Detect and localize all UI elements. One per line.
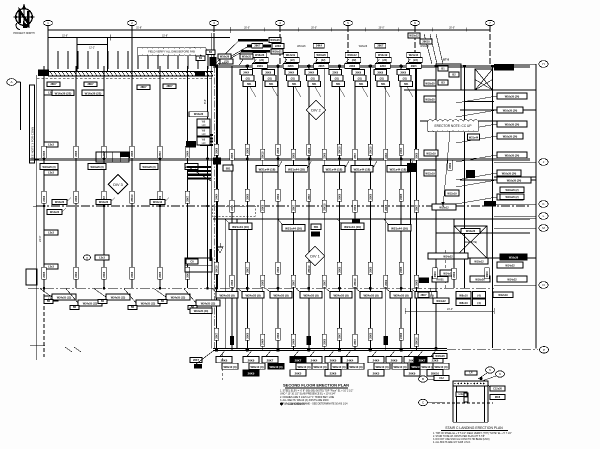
svg-text:W21x44 (16): W21x44 (16)	[232, 225, 249, 229]
svg-text:20'-0": 20'-0"	[379, 28, 385, 30]
lw top capsule 84	[84, 82, 97, 87]
right stub line y90	[404, 89, 536, 91]
svg-text:28K10: 28K10	[323, 203, 326, 211]
grid line 5 drop	[347, 26, 349, 65]
svg-text:W24x55 (12): W24x55 (12)	[111, 297, 126, 300]
lw joist tag a x187.5	[185, 146, 189, 158]
svg-text:W16x26 (3): W16x26 (3)	[42, 166, 55, 169]
svg-text:W16x31: W16x31	[242, 56, 252, 59]
svg-text:22K6: 22K6	[277, 332, 280, 339]
right area label 470-258	[470, 258, 488, 264]
junction box 2	[197, 128, 210, 136]
svg-text:W21x44 (18): W21x44 (18)	[390, 168, 407, 172]
vj tag r4 x262.6	[261, 334, 265, 346]
vj tag r2 x231.9	[230, 200, 234, 212]
lw joist tag c x187.5	[185, 191, 189, 203]
grid line 4 drop	[279, 26, 281, 65]
bottom left tick marks	[30, 345, 81, 352]
main joist x293.4	[292, 66, 294, 350]
grid line 7 drop	[489, 26, 491, 65]
svg-text:W21x44: W21x44	[469, 137, 479, 140]
svg-text:28K7: 28K7	[254, 45, 261, 48]
svg-text:26K5: 26K5	[416, 279, 419, 286]
lw joist tag c x104	[102, 191, 106, 203]
svg-text:P: P	[543, 348, 545, 352]
right vcap x454	[452, 268, 456, 279]
svg-text:(SEE NOTE): (SEE NOTE)	[464, 242, 477, 244]
svg-text:W16x26 (22): W16x26 (22)	[85, 91, 102, 95]
stair c joint dot	[479, 377, 482, 380]
svg-text:26K9: 26K9	[216, 147, 219, 154]
vj tag r3 x308.8	[307, 262, 311, 274]
right dark capsule y278	[419, 278, 429, 284]
braced bay upper	[475, 69, 493, 90]
bottom stack x386	[386, 350, 408, 369]
svg-text:24K4: 24K4	[231, 204, 234, 211]
svg-text:5: 5	[347, 21, 349, 25]
svg-text:26K5: 26K5	[262, 279, 265, 286]
grid line 2 drop	[131, 26, 133, 71]
left small rect	[26, 269, 37, 285]
vj tag r3 x370.3	[368, 262, 372, 274]
svg-text:28K7: 28K7	[416, 204, 419, 211]
bottom stack x306	[306, 350, 328, 369]
top dimension ticks	[48, 26, 490, 30]
svg-text:W16x26: W16x26	[55, 201, 65, 204]
bottom chord girder y348	[213, 349, 538, 351]
svg-text:28K7: 28K7	[339, 332, 342, 339]
junction dark plate	[195, 71, 205, 76]
grid bubble right 1	[539, 61, 548, 68]
girder label y292 x360	[356, 289, 382, 299]
svg-text:24K4: 24K4	[293, 338, 296, 345]
under-chord stack x305	[305, 70, 321, 98]
main joist x401.1	[400, 66, 402, 350]
svg-text:20'-0": 20'-0"	[244, 28, 250, 30]
right note label y177	[456, 177, 531, 187]
grid bubble 5 top	[344, 20, 353, 25]
svg-text:W12x19: W12x19	[447, 193, 457, 196]
right area label 497-276	[497, 276, 527, 282]
svg-text:15'-8": 15'-8"	[162, 36, 168, 38]
right dim stub y64	[494, 63, 536, 65]
right area label 428-253	[428, 253, 468, 259]
DIV 3 phase diamond	[108, 175, 127, 194]
vj tag r2 x370.3	[368, 189, 372, 201]
lw girder label x196	[184, 289, 220, 310]
right note label y194	[456, 194, 523, 204]
right extra label a	[500, 187, 524, 193]
right vcap x435	[433, 268, 437, 279]
svg-text:5: 5	[489, 368, 491, 372]
svg-text:W8x10 (3): W8x10 (3)	[421, 365, 434, 369]
svg-text:26K5: 26K5	[231, 152, 234, 159]
bay label group x342.7	[344, 46, 368, 69]
lw joist tag c x160	[158, 191, 162, 203]
svg-text:26K5: 26K5	[262, 204, 265, 211]
grid bubble right 3	[539, 201, 548, 208]
vj tag r3 x216.5	[214, 262, 218, 274]
joint dots x278.0	[276, 65, 279, 352]
svg-text:28K7: 28K7	[308, 193, 311, 200]
girder line y288 dashdot	[28, 287, 494, 289]
svg-text:26K9: 26K9	[486, 271, 489, 278]
svg-text:W16x26 (24): W16x26 (24)	[503, 110, 518, 113]
left dim rotated text	[38, 235, 42, 242]
svg-text:W21x44 (18): W21x44 (18)	[288, 168, 305, 172]
top chord girder y66	[213, 65, 530, 67]
bay pair x240	[239, 54, 253, 66]
vj tag r1 x370.3	[368, 144, 372, 155]
girder label y166 x387	[387, 161, 413, 172]
right dim stub y204	[494, 203, 536, 205]
svg-text:26K5: 26K5	[295, 372, 302, 376]
right dim stub y162	[494, 161, 536, 163]
svg-text:L: L	[543, 214, 545, 218]
svg-text:2: 2	[131, 21, 133, 25]
svg-text:6: 6	[414, 21, 416, 25]
svg-text:B: B	[422, 377, 424, 381]
right area label 424-170	[424, 170, 436, 176]
svg-text:W14x22: W14x22	[436, 300, 446, 303]
svg-text:28K7: 28K7	[216, 332, 219, 339]
grid bubble 1 top	[44, 20, 53, 25]
stair c label L4x4	[456, 392, 467, 397]
svg-text:L3x3: L3x3	[48, 144, 54, 147]
svg-text:W8x10 (3): W8x10 (3)	[297, 365, 310, 369]
right label x493 y292	[493, 292, 513, 298]
left wing joist x187.5	[187, 66, 189, 288]
svg-text:W21x44 (18): W21x44 (18)	[354, 168, 371, 172]
vj tag r3 x278.0	[276, 262, 280, 274]
lw joist tag d x104	[102, 267, 106, 279]
under-chord stack x397	[397, 70, 413, 98]
junction box 3	[197, 137, 210, 145]
svg-text:W24x55 (9): W24x55 (9)	[363, 294, 378, 298]
main joist x416.4	[415, 66, 417, 350]
svg-text:5B1: 5B1	[404, 83, 409, 86]
svg-text:L3x3: L3x3	[48, 266, 54, 269]
svg-text:W18x35: W18x35	[425, 99, 435, 102]
svg-text:5B: 5B	[47, 300, 50, 303]
svg-text:W12x19: W12x19	[426, 153, 436, 156]
lw bottom right capsule	[190, 308, 212, 314]
svg-text:28K7: 28K7	[141, 86, 148, 89]
svg-text:5B1: 5B1	[314, 226, 319, 229]
svg-text:(31): (31)	[268, 77, 272, 80]
svg-text:22K6: 22K6	[103, 271, 106, 278]
girder small box y223	[311, 224, 321, 230]
svg-text:26K9: 26K9	[248, 372, 255, 376]
main joist x262.6	[262, 66, 264, 350]
svg-text:W21x44 (18): W21x44 (18)	[259, 168, 276, 172]
vj tag r1 x308.8	[307, 144, 311, 155]
svg-text:24K4: 24K4	[243, 72, 249, 75]
left mid capsule	[84, 255, 110, 260]
bay label group x311.9	[313, 44, 330, 69]
tag bar 3	[217, 49, 283, 66]
right dark box y201	[484, 201, 496, 207]
second floor plan title	[283, 383, 349, 389]
vj tag r3 x401.1	[399, 262, 403, 274]
svg-text:5B: 5B	[131, 306, 134, 309]
beam detail table	[96, 152, 129, 162]
right joist x464	[463, 65, 466, 288]
svg-text:3. DO NOT USE 5/16 FLG CONN TO: 3. DO NOT USE 5/16 FLG CONN TO HD BEAM (…	[433, 438, 490, 441]
lw top capsule 137	[137, 85, 150, 90]
svg-text:L3x3: L3x3	[48, 172, 54, 175]
stair c title	[441, 426, 508, 431]
joint dots x247.3	[246, 65, 249, 352]
svg-text:22K6: 22K6	[400, 332, 403, 339]
svg-text:26K9: 26K9	[409, 372, 416, 376]
svg-text:22K6: 22K6	[323, 152, 326, 159]
right dark capsule	[500, 254, 527, 260]
svg-text:22K6: 22K6	[432, 358, 439, 362]
bay label group x373.4	[374, 44, 391, 69]
vj tag r1 x262.6	[261, 149, 265, 160]
vj tag r1 x293.4	[291, 149, 295, 160]
right area label 424-150	[424, 150, 438, 156]
svg-text:W16x26: W16x26	[194, 113, 204, 116]
under-chord stack x329	[329, 70, 345, 98]
vj tag r4 x401.1	[399, 328, 403, 340]
svg-text:AA B1: AA B1	[436, 279, 444, 282]
svg-text:28K7: 28K7	[159, 150, 162, 157]
right area label 470-276	[470, 276, 490, 282]
bottom stack x325	[325, 350, 347, 376]
svg-text:26K9: 26K9	[391, 358, 398, 362]
dashed opening outline	[212, 206, 255, 216]
lw joist tag a x44	[42, 146, 46, 158]
svg-text:W24x55 (12): W24x55 (12)	[141, 303, 156, 306]
svg-text:7: 7	[489, 21, 491, 25]
left edge label y264	[44, 264, 58, 269]
svg-text:(4): (4)	[477, 294, 480, 298]
svg-text:(31): (31)	[311, 77, 315, 80]
svg-text:W16x26 (24): W16x26 (24)	[502, 173, 517, 176]
svg-text:W21x44 (16): W21x44 (16)	[391, 227, 408, 231]
vj tag r1 x385.7	[384, 149, 388, 160]
svg-text:26K5: 26K5	[400, 193, 403, 200]
svg-text:5B: 5B	[101, 300, 104, 303]
right dimension line	[535, 64, 537, 348]
right area label 497-262	[497, 262, 523, 268]
left wing joist ticks	[58, 51, 208, 69]
grid bubble 6 top	[411, 20, 420, 25]
svg-text:28K7: 28K7	[267, 358, 274, 362]
svg-text:24K4: 24K4	[308, 72, 314, 75]
right dim line y311	[405, 308, 494, 314]
grid bubble 7 top	[486, 20, 495, 25]
stair c dashed landing line	[432, 402, 493, 404]
svg-text:28K10: 28K10	[431, 372, 440, 376]
left wing joist x207.5	[207, 66, 209, 288]
lw girder capsule x88	[88, 164, 106, 170]
svg-text:22K6: 22K6	[288, 65, 295, 68]
stair c bubble 5	[478, 367, 495, 379]
svg-text:26K9: 26K9	[265, 72, 271, 75]
svg-text:24K4: 24K4	[288, 72, 294, 75]
svg-text:(22): (22)	[259, 59, 264, 62]
junction centerline	[213, 66, 215, 349]
svg-text:24K4: 24K4	[400, 147, 403, 154]
vj tag r2 x247.3	[245, 189, 249, 201]
vj tag r2 x416.4	[414, 200, 418, 212]
stair c label right 1	[488, 384, 505, 391]
svg-text:6: 6	[499, 372, 501, 376]
svg-text:24K4: 24K4	[311, 358, 318, 362]
lw girder capsule x185	[185, 164, 198, 170]
right vcap x487	[485, 268, 489, 279]
svg-text:SEE NOTE 3 FOR CONN: SEE NOTE 3 FOR CONN	[30, 127, 34, 160]
right dim stub y228	[494, 227, 536, 229]
right note label y107	[456, 107, 523, 117]
lw joist tag a x132	[130, 146, 134, 158]
stair c notes	[433, 433, 512, 444]
bottom stack x404	[404, 350, 426, 376]
vj tag r4 x278.0	[276, 328, 280, 340]
svg-text:(31): (31)	[291, 77, 295, 80]
svg-text:W14x22: W14x22	[507, 279, 517, 282]
svg-text:20'-0": 20'-0"	[311, 28, 317, 30]
girder label y292 x270	[266, 289, 292, 299]
svg-text:26K5: 26K5	[246, 147, 249, 154]
vj tag r1 x354.9	[353, 149, 357, 160]
svg-text:1: 1	[47, 21, 49, 25]
left edge label y170	[44, 170, 58, 175]
girder label y223 x229	[225, 219, 252, 230]
bottom-left cluster	[190, 350, 214, 368]
dark box y219	[352, 219, 360, 225]
svg-text:28K7: 28K7	[187, 195, 190, 202]
main joist x278.0	[277, 66, 279, 350]
right note label y152	[456, 152, 527, 162]
svg-text:W24x55 (12): W24x55 (12)	[57, 297, 72, 300]
svg-text:(22): (22)	[352, 59, 357, 62]
svg-text:22K6: 22K6	[131, 271, 134, 278]
vj tag r4 x293.4	[291, 334, 295, 346]
svg-text:W16x26 (24): W16x26 (24)	[505, 155, 520, 158]
svg-text:L3x3: L3x3	[48, 232, 54, 235]
svg-text:W8x10 (3): W8x10 (3)	[269, 365, 282, 369]
svg-text:(22): (22)	[382, 59, 387, 62]
lw top capsule 163	[163, 84, 176, 89]
svg-text:W10x12: W10x12	[409, 35, 419, 38]
svg-text:1. TOP OF STEEL EL + 5' 5 1/2": 1. TOP OF STEEL EL + 5' 5 1/2" FIELD VER…	[433, 433, 512, 435]
vj tag r2 x278.0	[276, 189, 280, 201]
svg-text:22K6: 22K6	[75, 195, 78, 202]
svg-text:26K9: 26K9	[453, 271, 456, 278]
svg-text:W8x10 (3): W8x10 (3)	[393, 365, 406, 369]
girder label y166 x285.4	[285, 161, 311, 172]
svg-text:W16x26 (24): W16x26 (24)	[507, 180, 522, 183]
svg-text:W16x26: W16x26	[359, 46, 368, 48]
svg-text:W8x10 (3): W8x10 (3)	[250, 365, 263, 369]
right stub line y177	[494, 176, 536, 178]
girder label y292 x415	[411, 289, 437, 299]
svg-text:W10x12: W10x12	[474, 261, 484, 264]
svg-text:W8x10 (3): W8x10 (3)	[332, 365, 345, 369]
svg-text:W16x26: W16x26	[316, 54, 326, 57]
bottom stack x368	[368, 350, 390, 376]
svg-text:(22): (22)	[321, 59, 326, 62]
stair flight mid	[187, 166, 211, 181]
right extra label b	[500, 194, 524, 200]
svg-text:24K4: 24K4	[262, 338, 265, 345]
svg-text:W16x26 (24): W16x26 (24)	[503, 136, 518, 139]
lw below-chord capsule	[47, 208, 66, 215]
grid bubble right 6	[539, 282, 548, 289]
right joist x454	[453, 219, 455, 288]
equipment rect	[436, 64, 461, 90]
left wing joist x160	[159, 66, 161, 288]
main joist x308.8	[308, 66, 310, 350]
dark box y163 right	[407, 163, 417, 172]
bottom stack x243	[243, 350, 265, 376]
right note label y93	[456, 93, 527, 103]
left wing joist x217.5	[217, 66, 219, 288]
tag bar 2	[216, 44, 285, 66]
svg-text:28K7: 28K7	[167, 85, 174, 88]
svg-text:H: H	[542, 62, 544, 66]
left wing dashed wall line	[37, 78, 213, 80]
svg-text:28K7: 28K7	[354, 338, 357, 345]
svg-text:24K4: 24K4	[373, 358, 380, 362]
svg-text:BT-8: BT-8	[443, 58, 450, 62]
bay label group x404.2	[405, 46, 429, 69]
top-left bay outline	[77, 38, 108, 71]
third tier dim line	[48, 35, 230, 41]
right under-288 label b	[430, 289, 449, 304]
svg-text:28K7: 28K7	[51, 83, 58, 86]
svg-text:26K9: 26K9	[355, 72, 361, 75]
svg-text:28K10: 28K10	[354, 278, 357, 286]
svg-text:26K5: 26K5	[318, 65, 325, 68]
right joist x436	[435, 65, 438, 350]
right area label 467.5-134	[468, 134, 480, 140]
svg-text:ERECTOR NOTE: CC UP: ERECTOR NOTE: CC UP	[435, 124, 472, 128]
svg-text:28K7: 28K7	[419, 358, 426, 362]
svg-text:26K9: 26K9	[308, 147, 311, 154]
stair dark box left	[186, 141, 196, 148]
svg-text:= SLAB OPENING: = SLAB OPENING	[285, 403, 305, 406]
svg-text:22K6: 22K6	[349, 65, 356, 68]
girder label y166 x351	[351, 161, 377, 172]
svg-text:26K5: 26K5	[293, 152, 296, 159]
main joist x247.3	[246, 66, 248, 350]
svg-text:26K5: 26K5	[159, 271, 162, 278]
vj tag r1 x278.0	[276, 144, 280, 155]
svg-text:22K6: 22K6	[277, 266, 280, 273]
right area label 440-270	[440, 270, 456, 276]
grid line 1 drop	[47, 26, 49, 71]
svg-text:26K9: 26K9	[416, 152, 419, 159]
svg-text:W16x26 (24): W16x26 (24)	[505, 96, 520, 99]
svg-text:22K6: 22K6	[231, 279, 234, 286]
lw girder capsule x40	[40, 164, 58, 170]
lw girder label x136	[124, 289, 160, 310]
left wing top beam band	[48, 72, 213, 77]
vj tag r3 x231.9	[230, 275, 234, 287]
svg-text:SECOND FLOOR ERECTION PLAN: SECOND FLOOR ERECTION PLAN	[283, 383, 349, 388]
left edge label y142	[44, 142, 58, 147]
right 2x2 cluster	[456, 292, 486, 306]
svg-text:W16x31: W16x31	[272, 51, 282, 54]
extra joist x225	[224, 219, 226, 349]
svg-text:28K7: 28K7	[293, 279, 296, 286]
right note label y133	[456, 133, 523, 143]
